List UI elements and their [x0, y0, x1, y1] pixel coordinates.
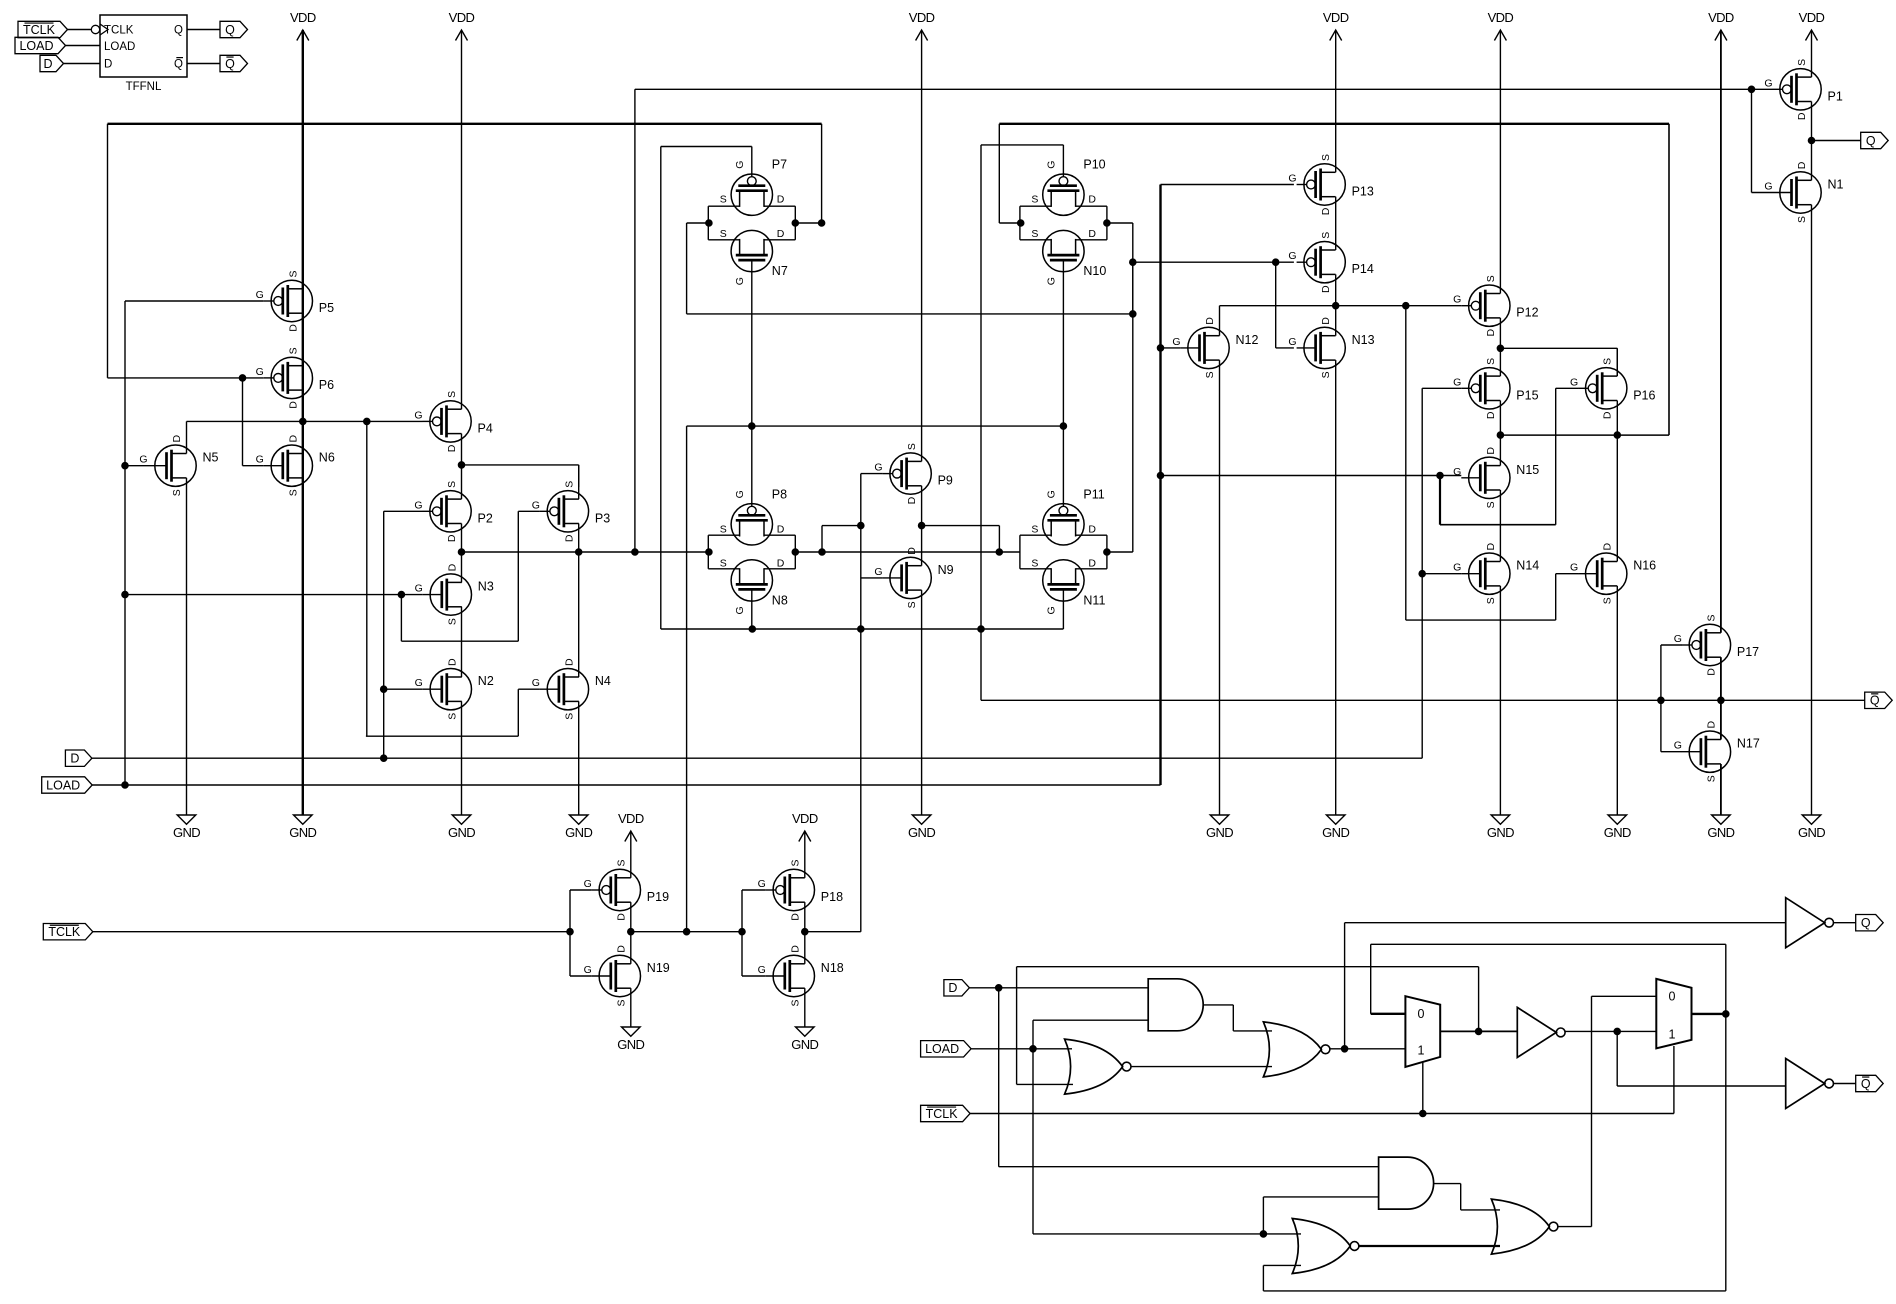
- svg-text:GND: GND: [1707, 825, 1734, 840]
- ground (x=1811.5): [1798, 815, 1825, 840]
- svg-text:N4: N4: [595, 674, 611, 688]
- nor-gate N_3: [1292, 1219, 1359, 1274]
- svg-text:S: S: [1705, 775, 1717, 782]
- power VDD (x=1811.5): [1799, 10, 1825, 41]
- wire CLK2 from P18: [860, 629, 862, 932]
- wire NOR4 out: [1558, 996, 1656, 1226]
- svg-text:N1: N1: [1828, 178, 1844, 192]
- svg-text:D: D: [789, 913, 801, 921]
- wire: [64, 63, 101, 65]
- transistor N12: [1172, 317, 1258, 379]
- svg-text:G: G: [874, 462, 882, 474]
- transistor P16: [1570, 358, 1655, 419]
- wire bus right (y=123.8): [999, 124, 1669, 435]
- wire: [68, 29, 92, 31]
- svg-text:N6: N6: [319, 451, 335, 465]
- port TCLK (logic): [921, 1105, 971, 1121]
- ground (x=921.6): [908, 815, 935, 840]
- svg-text:D: D: [171, 434, 183, 442]
- svg-text:D: D: [906, 547, 918, 555]
- svg-text:D: D: [446, 534, 458, 542]
- wire: [187, 29, 220, 31]
- svg-text:D: D: [1088, 228, 1096, 240]
- wire P18-N18 chain: [804, 831, 806, 1027]
- wire mux2 out: [1692, 1011, 1730, 1018]
- svg-text:G: G: [1453, 562, 1461, 574]
- svg-text:D: D: [287, 324, 299, 332]
- svg-text:P16: P16: [1633, 388, 1655, 402]
- svg-text:G: G: [256, 289, 264, 301]
- svg-text:N3: N3: [478, 580, 494, 594]
- svg-text:GND: GND: [173, 825, 200, 840]
- wire bus left (y=123.8): [108, 124, 822, 378]
- svg-text:S: S: [906, 443, 918, 450]
- svg-text:G: G: [1288, 336, 1296, 348]
- transistor P10: [1031, 158, 1105, 216]
- svg-text:S: S: [287, 489, 299, 496]
- svg-text:D: D: [1485, 542, 1497, 550]
- svg-text:D: D: [1088, 557, 1096, 569]
- wire Q inv out: [1833, 922, 1856, 924]
- wire P17/N17 gate vertical: [1661, 645, 1682, 752]
- wire VDD rail P1-N1 chain: [1811, 30, 1813, 815]
- svg-text:S: S: [615, 859, 627, 866]
- transistor P19: [584, 859, 669, 920]
- svg-text:1: 1: [1418, 1044, 1425, 1058]
- svg-text:S: S: [287, 347, 299, 354]
- node LOAD junctions: [122, 462, 129, 788]
- svg-text:TCLK: TCLK: [48, 925, 81, 939]
- svg-text:S: S: [1031, 194, 1038, 206]
- svg-text:N8: N8: [772, 593, 788, 607]
- svg-text:D: D: [446, 563, 458, 571]
- svg-text:S: S: [446, 481, 458, 488]
- wire N10.G-P11.G x=1063.4: [1062, 260, 1064, 506]
- wire P9/N9 gate vertical: [861, 474, 883, 629]
- wire P15.G path: [1419, 388, 1461, 577]
- svg-text:G: G: [1288, 173, 1296, 185]
- svg-text:D: D: [1485, 328, 1497, 336]
- wire LOAD (logic): [971, 1046, 1072, 1053]
- svg-text:G: G: [1288, 250, 1296, 262]
- flip-flop block U1 TFFNL: [91, 15, 187, 93]
- port LOAD (symbol): [15, 37, 66, 53]
- svg-text:LOAD: LOAD: [925, 1042, 959, 1056]
- svg-text:S: S: [563, 713, 575, 720]
- svg-text:G: G: [758, 878, 766, 890]
- svg-text:Q: Q: [1861, 1077, 1871, 1091]
- svg-text:S: S: [1320, 232, 1332, 239]
- wire P11/N11 output: [1104, 549, 1133, 556]
- wire NOR1 out: [1131, 1066, 1272, 1068]
- wire TCLK (logic): [970, 1046, 1674, 1117]
- svg-text:S: S: [1485, 358, 1497, 365]
- svg-text:G: G: [532, 677, 540, 689]
- svg-text:G: G: [1764, 77, 1772, 89]
- svg-text:P12: P12: [1516, 306, 1538, 320]
- transistor N6: [256, 434, 335, 496]
- ground (x=1500.4): [1487, 815, 1514, 840]
- svg-text:G: G: [1045, 606, 1057, 614]
- wire P19/N19 gate vertical: [570, 890, 592, 976]
- svg-text:P13: P13: [1352, 185, 1374, 199]
- svg-text:D: D: [446, 444, 458, 452]
- svg-text:G: G: [414, 499, 422, 511]
- ground (x=1219.5): [1206, 815, 1233, 840]
- wire P9/N9 out: [918, 522, 999, 552]
- transistor P1: [1764, 59, 1843, 120]
- svg-text:P10: P10: [1083, 158, 1105, 172]
- wire P8/N8 output: [792, 549, 1020, 556]
- svg-text:N12: N12: [1236, 333, 1259, 347]
- svg-text:S: S: [720, 523, 727, 535]
- svg-text:G: G: [734, 490, 746, 498]
- wire net-Y y=552: [462, 551, 709, 553]
- svg-text:G: G: [1453, 376, 1461, 388]
- svg-text:S: S: [446, 713, 458, 720]
- svg-text:N17: N17: [1737, 737, 1760, 751]
- svg-text:D: D: [615, 913, 627, 921]
- port TCLK: [43, 924, 93, 940]
- wire N5.D-X: [187, 420, 303, 422]
- transistor P3: [532, 481, 611, 542]
- transistor P7: [720, 158, 787, 216]
- transistor N13: [1288, 317, 1374, 379]
- svg-text:G: G: [1453, 294, 1461, 306]
- ground (x=1720.9): [1707, 815, 1734, 840]
- wire CLKB seg: [628, 928, 746, 935]
- wire LOAD line: [92, 185, 1160, 786]
- wire D (logic): [969, 985, 1148, 992]
- wire N5 drain/source: [186, 421, 188, 815]
- port Q: [1861, 132, 1889, 148]
- transistor P12: [1453, 275, 1538, 336]
- port LOAD: [42, 777, 92, 793]
- svg-text:N18: N18: [821, 961, 844, 975]
- svg-text:GND: GND: [565, 825, 592, 840]
- svg-text:P18: P18: [821, 890, 843, 904]
- svg-text:D: D: [104, 59, 112, 71]
- wire LOAD-AND1: [1033, 1020, 1148, 1049]
- wire LOAD drop: [1033, 1049, 1301, 1237]
- ground (N18): [791, 1027, 818, 1052]
- transistor N18: [758, 945, 844, 1007]
- svg-text:S: S: [1320, 371, 1332, 378]
- svg-text:G: G: [139, 454, 147, 466]
- svg-text:VDD: VDD: [1708, 10, 1734, 25]
- wire P3.G-N3.G: [401, 511, 540, 641]
- svg-text:LOAD: LOAD: [104, 41, 135, 53]
- wire N15.G line: [1157, 472, 1461, 479]
- svg-text:P15: P15: [1516, 388, 1538, 402]
- svg-text:G: G: [758, 964, 766, 976]
- svg-text:Q: Q: [1861, 916, 1871, 930]
- svg-text:D: D: [948, 981, 957, 995]
- wire N12.G: [1157, 345, 1180, 352]
- svg-text:G: G: [415, 677, 423, 689]
- wire P16-N16 chain: [1616, 348, 1618, 815]
- wire P3-N4 chain: [578, 465, 580, 815]
- wire D line: [92, 574, 1422, 759]
- wire mux1 out: [1440, 1028, 1517, 1035]
- mux M1: [1405, 996, 1440, 1067]
- svg-text:N14: N14: [1516, 559, 1539, 573]
- wire N14.G: [1422, 573, 1461, 575]
- svg-text:D: D: [563, 658, 575, 666]
- wire P11/N11 loops: [1020, 535, 1107, 569]
- transistor P5: [256, 270, 335, 331]
- svg-text:G: G: [415, 583, 423, 595]
- svg-text:D: D: [563, 534, 575, 542]
- wire P19-N19 chain: [630, 831, 632, 1027]
- wire VDD rail P13-P14-N13 chain: [1335, 30, 1337, 815]
- svg-text:S: S: [1031, 557, 1038, 569]
- transistor N17: [1674, 720, 1760, 782]
- svg-text:D: D: [1320, 285, 1332, 293]
- port TCLK (symbol): [18, 21, 68, 37]
- nor-gate N_4: [1491, 1199, 1558, 1254]
- wire AND2 in2: [1263, 1197, 1378, 1234]
- wire TCLK line: [93, 928, 574, 935]
- wire N16.G path: [1406, 306, 1579, 620]
- svg-text:P17: P17: [1737, 645, 1759, 659]
- wire VDD rail P17-N17 chain: [1720, 30, 1722, 815]
- port Q-bar (symbol): [220, 55, 248, 71]
- transistor P4: [414, 391, 493, 452]
- wire P10.G: [981, 145, 1063, 629]
- svg-text:S: S: [1602, 597, 1614, 604]
- wire CLK2 y=629: [661, 147, 1064, 633]
- wire P18/N18 gate vertical: [742, 890, 766, 976]
- svg-text:G: G: [734, 161, 746, 169]
- svg-text:D: D: [1485, 411, 1497, 419]
- wire VDD rail P5-P6-N6 chain: [302, 30, 304, 815]
- wire P10/N10 input: [1017, 220, 1024, 227]
- svg-text:GND: GND: [1798, 825, 1825, 840]
- wire LOAD vertical x=125: [124, 301, 126, 785]
- transistor P2: [414, 481, 493, 542]
- svg-text:S: S: [446, 618, 458, 625]
- svg-text:GND: GND: [1604, 825, 1631, 840]
- svg-text:TCLK: TCLK: [23, 23, 56, 37]
- ground (x=186.5): [173, 815, 200, 840]
- inverter I2 (Q): [1786, 898, 1834, 948]
- wire N7.G-P8.G x=751.8: [749, 260, 756, 506]
- svg-text:G: G: [1045, 277, 1057, 285]
- svg-text:D: D: [1320, 317, 1332, 325]
- port Q (logic): [1856, 915, 1884, 931]
- svg-text:D: D: [615, 945, 627, 953]
- power VDD (P19): [618, 811, 644, 842]
- svg-text:S: S: [1031, 228, 1038, 240]
- wire P8/N8 loops: [708, 535, 795, 569]
- svg-text:N10: N10: [1083, 264, 1106, 278]
- inverter I3 (Qbar): [1786, 1059, 1834, 1109]
- svg-text:P9: P9: [938, 474, 953, 488]
- svg-text:P19: P19: [647, 890, 669, 904]
- wire D gates x=383.7: [380, 511, 422, 761]
- svg-text:N13: N13: [1352, 333, 1375, 347]
- svg-text:D: D: [1796, 112, 1808, 120]
- svg-text:P6: P6: [319, 378, 334, 392]
- port D (logic): [944, 980, 970, 996]
- svg-text:G: G: [1764, 181, 1772, 193]
- wire P13.G: [1161, 184, 1294, 186]
- wire P10/N10 output: [1104, 220, 1133, 552]
- svg-text:S: S: [1485, 275, 1497, 282]
- svg-text:S: S: [789, 859, 801, 866]
- svg-text:D: D: [1088, 194, 1096, 206]
- wire net-S y=305.7: [1220, 302, 1462, 335]
- svg-text:S: S: [720, 194, 727, 206]
- svg-text:0: 0: [1418, 1007, 1425, 1021]
- ground (x=1617.3): [1604, 815, 1631, 840]
- svg-text:0: 0: [1669, 990, 1676, 1004]
- svg-text:S: S: [906, 601, 918, 608]
- svg-text:D: D: [777, 228, 785, 240]
- wire N12.S: [1219, 360, 1221, 815]
- transistor N15: [1453, 447, 1539, 509]
- transistor P9: [874, 443, 953, 504]
- svg-text:N19: N19: [647, 961, 670, 975]
- svg-text:GND: GND: [1487, 825, 1514, 840]
- port D: [65, 750, 92, 766]
- wire P16.G path: [1440, 388, 1578, 524]
- svg-text:S: S: [1705, 614, 1717, 621]
- svg-text:S: S: [720, 557, 727, 569]
- inverter I1: [1517, 1007, 1565, 1057]
- svg-text:GND: GND: [1322, 825, 1349, 840]
- svg-text:P3: P3: [595, 511, 610, 525]
- svg-text:D: D: [777, 194, 785, 206]
- svg-text:G: G: [1172, 336, 1180, 348]
- wire N5.G: [125, 465, 148, 467]
- transistor N7: [720, 228, 788, 285]
- svg-text:D: D: [1485, 447, 1497, 455]
- svg-text:N9: N9: [938, 563, 954, 577]
- svg-text:D: D: [777, 523, 785, 535]
- svg-text:N2: N2: [478, 674, 494, 688]
- svg-text:GND: GND: [1206, 825, 1233, 840]
- power VDD (x=461.5): [449, 10, 475, 41]
- wire I1 out: [1565, 1028, 1657, 1035]
- wire P6.G: [108, 375, 264, 466]
- transistor N9: [874, 547, 953, 609]
- svg-text:D: D: [287, 401, 299, 409]
- svg-text:S: S: [1796, 216, 1808, 223]
- wire N4.G path: [366, 689, 540, 736]
- port Q-bar: [1865, 692, 1893, 708]
- svg-text:G: G: [1570, 562, 1578, 574]
- ground (N19): [617, 1027, 644, 1052]
- mux M2: [1656, 979, 1691, 1049]
- wire Q node: [1808, 137, 1861, 144]
- port LOAD (logic): [921, 1041, 972, 1057]
- svg-text:P5: P5: [319, 301, 334, 315]
- svg-text:GND: GND: [448, 825, 475, 840]
- svg-text:VDD: VDD: [290, 10, 316, 25]
- ground (x=1335.7): [1322, 815, 1349, 840]
- svg-text:S: S: [287, 270, 299, 277]
- svg-text:D: D: [1796, 161, 1808, 169]
- svg-text:Q: Q: [225, 57, 235, 71]
- svg-text:S: S: [563, 481, 575, 488]
- wire Q-bar line: [981, 697, 1865, 704]
- transistor P14: [1288, 232, 1373, 293]
- svg-text:D: D: [446, 658, 458, 666]
- svg-text:VDD: VDD: [1323, 10, 1349, 25]
- transistor N16: [1570, 542, 1656, 604]
- svg-text:TCLK: TCLK: [926, 1107, 959, 1121]
- svg-text:P14: P14: [1352, 262, 1374, 276]
- wire P7/N7 output: [792, 220, 825, 227]
- transistor N2: [415, 658, 494, 720]
- svg-text:G: G: [256, 454, 264, 466]
- wire NOR2 out: [1330, 1046, 1406, 1053]
- svg-text:S: S: [1204, 371, 1216, 378]
- svg-text:D: D: [1088, 523, 1096, 535]
- svg-text:VDD: VDD: [618, 811, 644, 826]
- port Q-bar (logic): [1856, 1075, 1884, 1091]
- wire AND2 out: [1434, 1184, 1500, 1210]
- svg-text:GND: GND: [791, 1037, 818, 1052]
- wire NOR1 in2: [1017, 967, 1073, 1085]
- svg-text:D: D: [1320, 207, 1332, 215]
- wire N1.G: [1752, 89, 1773, 192]
- svg-text:P8: P8: [772, 487, 787, 501]
- svg-text:G: G: [874, 566, 882, 578]
- power VDD (P18): [792, 811, 818, 842]
- svg-text:D: D: [70, 752, 79, 766]
- svg-text:D: D: [906, 496, 918, 504]
- svg-text:S: S: [1320, 154, 1332, 161]
- wire: [66, 45, 101, 47]
- svg-text:G: G: [532, 499, 540, 511]
- wire CLKB gates y=426.1: [683, 423, 1066, 935]
- svg-text:S: S: [1485, 597, 1497, 604]
- svg-text:S: S: [1031, 523, 1038, 535]
- transistor P11: [1031, 487, 1104, 545]
- wire AND1 out: [1203, 1005, 1272, 1031]
- wire net-X: [300, 418, 423, 736]
- transistor P6: [256, 347, 335, 408]
- svg-text:G: G: [734, 277, 746, 285]
- svg-text:N7: N7: [772, 264, 788, 278]
- transistor P15: [1453, 358, 1538, 419]
- svg-text:VDD: VDD: [1488, 10, 1514, 25]
- ground (x=461.5): [448, 815, 475, 840]
- svg-text:D: D: [43, 57, 52, 71]
- svg-text:N15: N15: [1516, 463, 1539, 477]
- wire Q inv input: [1345, 923, 1786, 1049]
- svg-text:S: S: [446, 391, 458, 398]
- svg-text:D: D: [1705, 720, 1717, 728]
- svg-text:G: G: [734, 606, 746, 614]
- svg-text:D: D: [777, 557, 785, 569]
- transistor N11: [1031, 557, 1105, 614]
- svg-text:P4: P4: [478, 421, 493, 435]
- transistor N5: [139, 434, 218, 496]
- wire D drop: [999, 988, 1379, 1167]
- transistor N3: [415, 563, 494, 625]
- svg-text:P2: P2: [478, 511, 493, 525]
- svg-text:G: G: [1674, 740, 1682, 752]
- svg-text:Q: Q: [1866, 134, 1876, 148]
- svg-text:LOAD: LOAD: [46, 778, 80, 792]
- and-gate A1: [1148, 979, 1203, 1031]
- and-gate A2: [1379, 1157, 1434, 1209]
- svg-text:LOAD: LOAD: [19, 39, 53, 53]
